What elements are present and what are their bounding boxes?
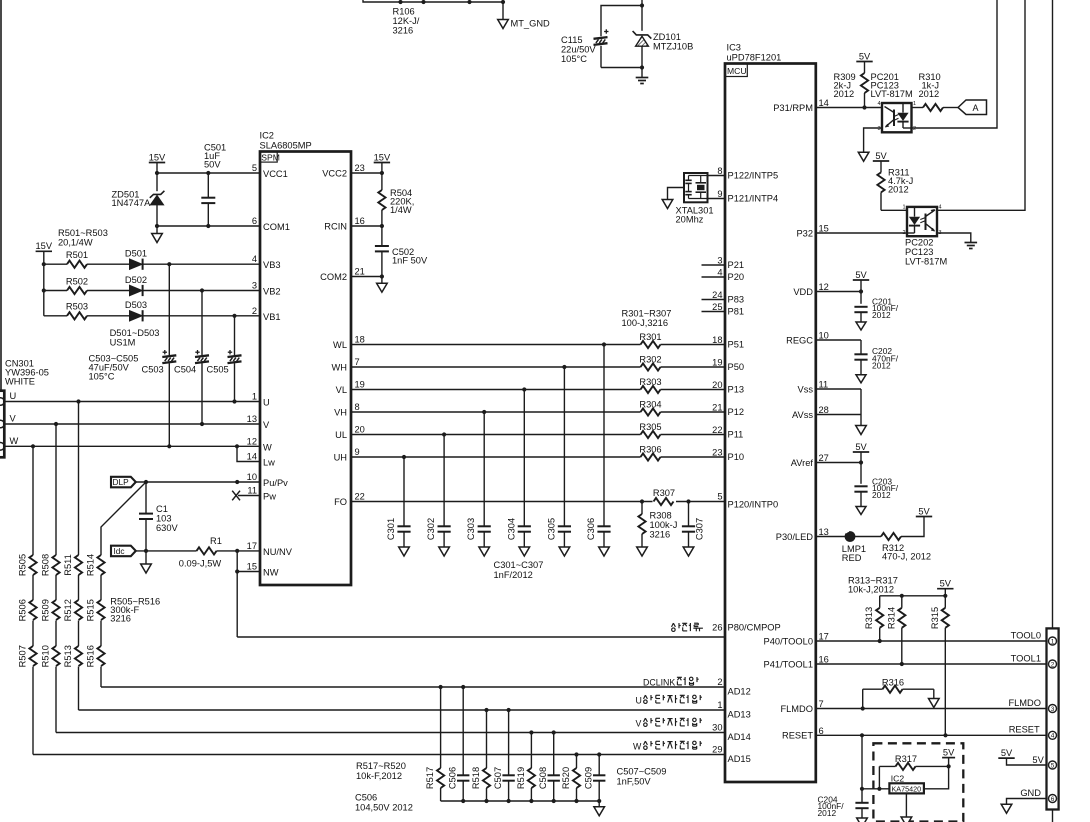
wire XTAL to P121	[708, 198, 726, 200]
junction dot VB row R502	[200, 288, 204, 292]
wire net VDD	[816, 291, 861, 293]
svg-text:1nF 50V: 1nF 50V	[392, 256, 428, 266]
svg-text:11: 11	[247, 486, 257, 496]
svg-text:D501: D501	[125, 249, 147, 259]
dashed box reset supervisor	[873, 743, 963, 821]
junction dot reset node	[860, 787, 864, 791]
crystal XTAL301 20Mhz	[684, 173, 708, 202]
junction dot net VDD	[859, 289, 863, 293]
wire XTAL to P122	[708, 175, 726, 177]
wire RESET branch down	[861, 735, 863, 803]
wire net 503 row	[44, 315, 67, 317]
junction dot net WH	[562, 365, 566, 369]
svg-text:R316: R316	[882, 678, 904, 688]
svg-text:AD12: AD12	[728, 687, 751, 697]
resistor R515	[97, 600, 104, 620]
svg-text:TOOL1: TOOL1	[1011, 654, 1041, 664]
wire net COM2	[351, 276, 382, 278]
svg-text:IC2: IC2	[891, 774, 905, 784]
capacitor C505 (electrolytic)	[234, 316, 236, 355]
resistor R315	[944, 596, 946, 608]
svg-text:V: V	[263, 420, 270, 430]
svg-text:R518: R518	[471, 767, 481, 789]
power flag 5V (R317)	[942, 757, 955, 759]
svg-text:NU/NV: NU/NV	[263, 547, 293, 557]
svg-text:470-J, 2012: 470-J, 2012	[882, 551, 931, 561]
svg-text:18: 18	[712, 335, 722, 345]
wire long riser to tool connector	[1052, 0, 1054, 628]
svg-text:Pw: Pw	[263, 492, 276, 502]
svg-text:16: 16	[819, 655, 829, 665]
junction dots net AD13	[484, 708, 488, 712]
svg-text:22: 22	[712, 425, 722, 435]
resistor R312	[881, 533, 901, 540]
wire top bus	[363, 0, 503, 2]
svg-text:DCLINK: DCLINK	[643, 678, 675, 688]
svg-text:2: 2	[252, 306, 257, 316]
wire reset node to KA75420	[862, 788, 889, 790]
resistor R504	[378, 190, 385, 210]
svg-text:KA75420: KA75420	[892, 785, 922, 794]
svg-text:Pu/Pv: Pu/Pv	[263, 478, 288, 488]
svg-text:R302: R302	[639, 355, 661, 365]
svg-text:AD15: AD15	[728, 754, 751, 764]
svg-text:11: 11	[819, 380, 829, 390]
resistor R314	[901, 596, 903, 608]
svg-text:2012: 2012	[888, 185, 909, 195]
svg-text:2: 2	[1051, 661, 1055, 668]
connector pin 3	[1049, 705, 1057, 713]
svg-text:R315: R315	[930, 607, 940, 629]
wire net RESET	[816, 734, 1047, 736]
wire stub IC3 port pin	[702, 299, 726, 301]
svg-text:3: 3	[252, 281, 257, 291]
svg-text:4: 4	[1051, 733, 1055, 740]
junction dot net VCC2	[380, 171, 384, 175]
svg-text:WH: WH	[332, 363, 348, 373]
wire PC202 emitter to earth	[937, 233, 971, 243]
svg-text:FLMDO: FLMDO	[780, 704, 813, 714]
junction dots net RESET	[860, 733, 864, 737]
svg-text:R517~R520: R517~R520	[356, 761, 406, 771]
svg-text:WL: WL	[333, 340, 347, 350]
capacitor C304	[523, 390, 525, 527]
svg-text:VB1: VB1	[263, 312, 281, 322]
svg-text:24: 24	[712, 290, 722, 300]
svg-text:AVss: AVss	[792, 410, 813, 420]
svg-text:10k-J,2012: 10k-J,2012	[848, 585, 894, 595]
svg-text:15: 15	[247, 562, 257, 572]
svg-text:P121/INTP4: P121/INTP4	[728, 194, 779, 204]
wire 15V rail	[43, 251, 45, 315]
svg-text:GND: GND	[1020, 788, 1041, 798]
svg-text:12K-J/: 12K-J/	[393, 16, 420, 26]
svg-text:5: 5	[252, 163, 257, 173]
junction dot net NW	[235, 569, 239, 573]
svg-text:P32: P32	[796, 228, 813, 238]
ground under COM1	[156, 226, 158, 234]
svg-text:23: 23	[355, 163, 365, 173]
wire net TOOL0	[816, 640, 1047, 642]
svg-text:25: 25	[712, 302, 722, 312]
wire net RCIN	[351, 225, 382, 227]
wire left border	[0, 0, 2, 391]
capacitor C502	[381, 226, 383, 246]
junction dot 5V/R317	[947, 764, 951, 768]
svg-text:5V: 5V	[1001, 748, 1013, 758]
svg-text:C1: C1	[156, 504, 168, 514]
svg-text:3: 3	[717, 256, 722, 266]
ground under C302	[439, 547, 450, 556]
wire below connector	[1052, 810, 1054, 822]
svg-text:R503: R503	[66, 302, 88, 312]
svg-text:27: 27	[819, 453, 829, 463]
svg-text:C506: C506	[355, 793, 377, 803]
wire PC201 emitter to ground	[864, 128, 882, 152]
junction dot net UH	[402, 455, 406, 459]
svg-text:V: V	[10, 414, 17, 424]
svg-text:23: 23	[712, 448, 722, 458]
diode D503	[130, 311, 143, 321]
connector pin 6	[1049, 795, 1057, 803]
junction dot net VH	[482, 410, 486, 414]
capacitor C1	[145, 482, 147, 514]
svg-text:10: 10	[819, 331, 829, 341]
ground under PC201	[858, 152, 869, 161]
svg-text:Lw: Lw	[263, 458, 275, 468]
svg-text:Idc: Idc	[114, 546, 125, 556]
svg-text:R507: R507	[18, 645, 28, 667]
svg-text:C305: C305	[546, 518, 556, 540]
connector pin 2	[1049, 660, 1057, 668]
wire XTAL ground lead	[668, 188, 685, 200]
svg-text:U: U	[636, 696, 642, 706]
wire Lw branch	[237, 446, 260, 461]
svg-text:100-J,3216: 100-J,3216	[622, 318, 669, 328]
svg-text:9: 9	[717, 189, 722, 199]
junction dots net COM1	[155, 224, 159, 228]
svg-text:P50: P50	[728, 362, 745, 372]
svg-text:VB2: VB2	[263, 287, 281, 297]
svg-text:A: A	[972, 103, 978, 113]
svg-text:PC123: PC123	[905, 247, 933, 257]
resistor R508	[52, 555, 59, 575]
zener diode ZD101	[633, 31, 652, 39]
junction dots net W	[31, 444, 35, 448]
svg-text:C504: C504	[174, 365, 196, 375]
wire net U	[4, 401, 260, 403]
svg-text:1: 1	[717, 700, 722, 710]
junction dots net FO	[640, 499, 644, 503]
resistor R1	[197, 547, 217, 554]
svg-text:R501: R501	[66, 250, 88, 260]
junction dots net AD12	[439, 685, 443, 689]
svg-text:IC3: IC3	[727, 43, 741, 53]
resistor R306	[641, 453, 661, 460]
svg-text:C301: C301	[386, 518, 396, 540]
resistor R516	[97, 646, 104, 666]
svg-text:D501~D503: D501~D503	[110, 328, 160, 338]
svg-text:13: 13	[819, 527, 829, 537]
resistor R512	[75, 600, 82, 620]
ground under C303	[479, 547, 490, 556]
svg-text:10k-F,2012: 10k-F,2012	[356, 771, 402, 781]
svg-text:15V: 15V	[149, 152, 166, 162]
power flag 5V (R312)	[916, 516, 932, 518]
wire R312 to 5V	[901, 517, 924, 537]
svg-text:AD14: AD14	[728, 732, 751, 742]
svg-text:D503: D503	[125, 300, 147, 310]
svg-text:C507~C509: C507~C509	[617, 767, 667, 777]
svg-text:R520: R520	[561, 767, 571, 789]
svg-text:P10: P10	[728, 452, 745, 462]
svg-text:R301~R307: R301~R307	[622, 309, 672, 319]
ground under C1	[145, 551, 147, 564]
ground under C307	[683, 547, 694, 556]
LED LMP1 RED	[845, 531, 856, 542]
wire net NW tie	[236, 551, 238, 637]
svg-text:R516: R516	[86, 645, 96, 667]
svg-text:RCIN: RCIN	[324, 222, 347, 232]
junction dots filter bus	[461, 799, 465, 803]
junction dot net UL	[442, 432, 446, 436]
resistor R503	[67, 312, 87, 319]
svg-text:1nF,50V: 1nF,50V	[617, 777, 652, 787]
svg-text:LVT-817M: LVT-817M	[871, 89, 913, 99]
svg-text:7: 7	[819, 699, 824, 709]
ground under C306	[599, 547, 610, 556]
wire filter ground bus	[441, 800, 600, 802]
wire net UH	[351, 456, 641, 458]
svg-text:SPM: SPM	[261, 153, 280, 163]
capacitor C307	[688, 502, 690, 527]
wire net W	[4, 445, 260, 447]
resistor R502	[67, 287, 87, 294]
optocoupler PC201	[882, 103, 912, 132]
wire net FLMDO	[816, 708, 1047, 710]
resistor R506	[29, 600, 36, 620]
resistor R518	[486, 710, 488, 768]
wire column R505~R507	[32, 446, 34, 555]
svg-text:2012: 2012	[834, 89, 855, 99]
svg-text:PC202: PC202	[905, 238, 933, 248]
wire net Idc	[136, 550, 197, 552]
svg-text:P31/RPM: P31/RPM	[773, 103, 813, 113]
svg-text:1: 1	[1051, 638, 1055, 645]
svg-text:5V: 5V	[1032, 755, 1044, 765]
diode D501	[130, 259, 143, 269]
svg-text:5V: 5V	[859, 51, 871, 61]
wire column R511~R513	[78, 402, 80, 556]
power flag 5V (R311)	[873, 160, 889, 162]
ground under C301	[399, 547, 410, 556]
svg-text:P80/CMPOP: P80/CMPOP	[728, 623, 781, 633]
svg-text:5V: 5V	[855, 442, 867, 452]
svg-text:2012: 2012	[818, 808, 837, 818]
svg-text:MTZJ10B: MTZJ10B	[653, 41, 693, 51]
capacitor C509	[598, 755, 600, 776]
resistor R307	[654, 498, 674, 505]
svg-text:2012: 2012	[872, 361, 891, 371]
capacitor C507	[508, 710, 510, 775]
resistor R520	[576, 755, 578, 769]
svg-text:29: 29	[712, 745, 722, 755]
svg-text:AVref: AVref	[791, 458, 814, 468]
capacitor C204	[855, 802, 868, 804]
svg-text:R515: R515	[86, 599, 96, 621]
net flag A	[958, 100, 987, 115]
svg-text:100k-J: 100k-J	[650, 520, 678, 530]
svg-text:0.09-J,5W: 0.09-J,5W	[179, 559, 222, 569]
capacitor C306	[603, 345, 605, 527]
svg-text:IC2: IC2	[260, 131, 274, 141]
connector TOOL header	[1047, 628, 1059, 809]
svg-text:5: 5	[717, 492, 722, 502]
svg-text:D502: D502	[125, 275, 147, 285]
svg-text:R314: R314	[886, 607, 896, 629]
svg-text:2: 2	[913, 126, 916, 132]
svg-text:15V: 15V	[36, 241, 53, 251]
svg-text:C505: C505	[207, 365, 229, 375]
svg-text:19: 19	[712, 358, 722, 368]
svg-text:R506: R506	[18, 599, 28, 621]
junction dots pullup bus	[900, 594, 904, 598]
ground under C201	[856, 322, 866, 330]
svg-text:UH: UH	[334, 453, 347, 463]
wire net WL	[351, 344, 641, 346]
resistor R510	[52, 646, 59, 666]
svg-text:104,50V 2012: 104,50V 2012	[355, 803, 413, 813]
svg-text:R307: R307	[653, 488, 675, 498]
svg-text:26: 26	[712, 623, 722, 633]
ground MT_GND	[498, 20, 509, 29]
svg-text:22: 22	[355, 492, 365, 502]
wire DLP diagonal to R514	[101, 482, 146, 555]
svg-text:17: 17	[247, 541, 257, 551]
junction dots on top bus	[398, 0, 402, 4]
wire net VL	[351, 389, 641, 391]
svg-text:105°C: 105°C	[561, 54, 587, 64]
svg-text:C115: C115	[561, 35, 583, 45]
ground under C203	[856, 507, 866, 515]
svg-text:5V: 5V	[943, 747, 955, 757]
zener diode ZD501	[156, 173, 158, 191]
svg-text:VL: VL	[336, 385, 347, 395]
wire column R508~R510	[55, 424, 57, 555]
svg-text:20: 20	[355, 425, 365, 435]
node label phase-current (Korean)	[672, 623, 674, 627]
svg-text:P11: P11	[728, 430, 744, 440]
wire KA75420 ground lead	[905, 793, 907, 817]
svg-text:9: 9	[355, 447, 360, 457]
wire net REGC	[816, 339, 861, 341]
resistor R301	[641, 341, 661, 348]
wire C115/ZD101 loop	[601, 6, 642, 37]
resistor R302	[641, 363, 661, 370]
power flag 5V (VDD)	[853, 279, 869, 281]
resistor R316	[862, 689, 864, 708]
ground under COM2	[381, 277, 383, 284]
svg-text:UL: UL	[335, 430, 347, 440]
svg-text:R303: R303	[639, 377, 661, 387]
svg-text:R306: R306	[639, 445, 661, 455]
svg-text:P20: P20	[728, 272, 745, 282]
svg-text:105°C: 105°C	[89, 372, 115, 382]
svg-text:R305: R305	[639, 422, 661, 432]
svg-text:6: 6	[819, 726, 824, 736]
svg-text:W: W	[263, 442, 272, 452]
capacitor C302	[443, 435, 445, 527]
capacitor C303	[483, 412, 485, 526]
svg-text:MCU: MCU	[727, 66, 747, 76]
svg-text:4: 4	[877, 101, 880, 107]
wire net V	[4, 423, 260, 425]
wire to MT_GND	[502, 2, 504, 20]
svg-text:17: 17	[819, 632, 829, 642]
junction dot VB row R501	[167, 262, 171, 266]
junction dot VB row R503	[232, 314, 236, 318]
wire net P31/RPM	[816, 107, 882, 109]
svg-text:3: 3	[1051, 706, 1055, 713]
MCU IC3 uPD78F1201 box	[725, 64, 816, 783]
svg-text:C306: C306	[586, 518, 596, 540]
svg-text:5: 5	[1051, 762, 1055, 769]
connector pin 4	[1049, 731, 1057, 739]
wire net UL	[351, 434, 641, 436]
svg-text:C302: C302	[426, 518, 436, 540]
svg-text:C507: C507	[493, 767, 503, 789]
svg-text:W: W	[633, 742, 642, 752]
ground (earth) under ZD101	[636, 77, 649, 79]
power flag 5V (R309)	[856, 61, 872, 63]
svg-text:5V: 5V	[940, 579, 952, 589]
svg-text:NW: NW	[263, 568, 279, 578]
svg-text:15: 15	[819, 224, 829, 234]
svg-text:1: 1	[913, 101, 916, 107]
connector pin 1	[1049, 637, 1057, 645]
wire net GND from connector	[1007, 799, 1047, 805]
svg-text:W: W	[10, 436, 19, 446]
resistor R311	[880, 161, 882, 172]
svg-text:5V: 5V	[855, 270, 867, 280]
svg-text:19: 19	[355, 380, 365, 390]
svg-text:C301~C307: C301~C307	[494, 560, 544, 570]
wire stub IC3 port pin	[702, 264, 726, 266]
svg-text:8: 8	[717, 166, 722, 176]
svg-text:R509: R509	[41, 599, 51, 621]
wire net WH	[351, 366, 641, 368]
junction dot net Idc	[144, 549, 148, 553]
IC2 KA75420 voltage detector	[889, 783, 924, 793]
svg-text:2: 2	[717, 677, 722, 687]
svg-text:P51: P51	[728, 340, 745, 350]
wire column R514~R516	[100, 575, 102, 600]
svg-text:1nF/2012: 1nF/2012	[494, 570, 533, 580]
ground under R308	[637, 547, 648, 556]
svg-text:WHITE: WHITE	[5, 377, 35, 387]
wire net phase-current (P80/CMPOP)	[237, 636, 725, 638]
ground filter bus	[598, 801, 600, 807]
capacitor C503 (electrolytic)	[168, 264, 170, 355]
svg-text:P120/INTP0: P120/INTP0	[728, 500, 779, 510]
wire net Vss/AVss	[816, 388, 861, 390]
capacitor C508	[553, 733, 555, 776]
svg-text:21: 21	[355, 267, 365, 277]
capacitor C115 (electrolytic)	[594, 37, 608, 39]
svg-text:P30/LED: P30/LED	[776, 532, 813, 542]
svg-text:P21: P21	[728, 260, 745, 270]
svg-text:R517: R517	[425, 767, 435, 789]
